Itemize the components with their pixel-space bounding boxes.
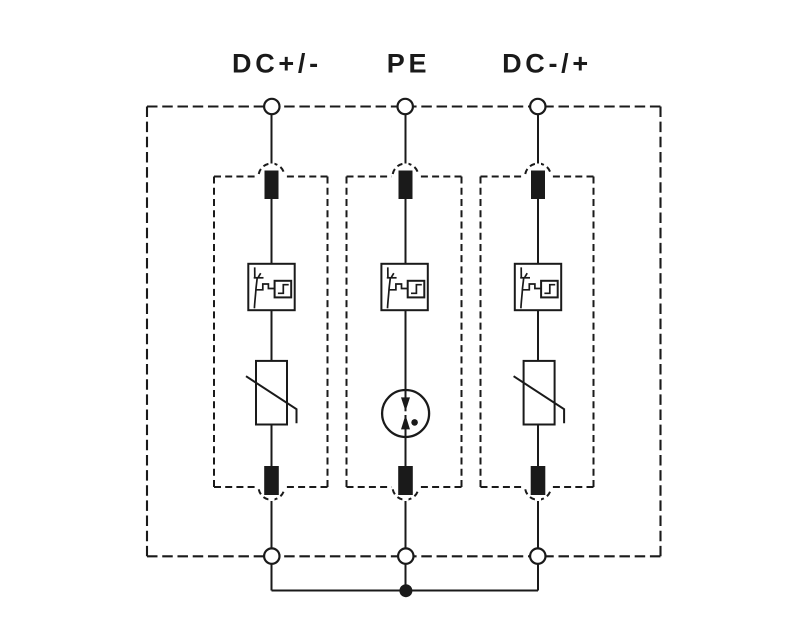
svg-text:PE: PE (387, 49, 430, 79)
svg-text:DC-/+: DC-/+ (502, 49, 592, 79)
svg-text:DC+/-: DC+/- (232, 49, 322, 79)
